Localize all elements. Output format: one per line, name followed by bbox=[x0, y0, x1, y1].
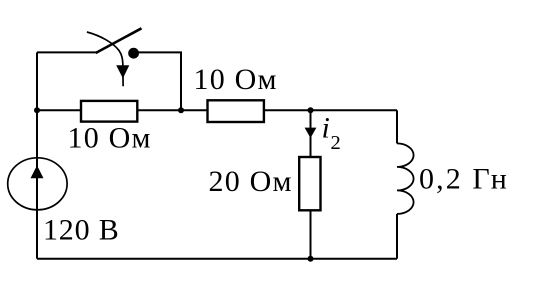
switch motion arc arrow bbox=[87, 32, 129, 86]
svg-text:2: 2 bbox=[331, 132, 341, 154]
svg-text:10 Ом: 10 Ом bbox=[194, 63, 278, 96]
wire top branch left segment bbox=[37, 51, 97, 53]
wire main line: node A to resistor R1 bbox=[37, 109, 81, 111]
inductor L1 0.2 Gn coil bbox=[397, 143, 414, 214]
wire i2 branch upper bbox=[310, 110, 312, 157]
svg-text:i: i bbox=[322, 112, 330, 145]
svg-text:120 В: 120 В bbox=[43, 214, 120, 247]
wire left rail bbox=[36, 52, 38, 258]
svg-text:0,2 Гн: 0,2 Гн bbox=[419, 163, 509, 196]
resistor R1 10 Om body bbox=[81, 101, 137, 122]
voltage source E1 circle bbox=[8, 158, 67, 210]
node A junction dot left bbox=[34, 107, 40, 113]
wire i2 branch lower bbox=[310, 210, 312, 258]
wire top branch right segment bbox=[139, 52, 182, 110]
node C junction dot (i2 branch top) bbox=[308, 107, 314, 113]
wire main line: R1 to R2 bbox=[137, 109, 207, 111]
resistor R3 20 Om body bbox=[299, 157, 320, 210]
wire bottom line bbox=[37, 258, 397, 260]
resistor R2 10 Om body bbox=[208, 100, 264, 122]
wire right rail lower bbox=[396, 214, 398, 259]
wire right rail upper bbox=[396, 110, 398, 143]
svg-text:10 Ом: 10 Ом bbox=[68, 122, 152, 155]
switch contact dot bbox=[128, 48, 139, 59]
switch S blade bbox=[96, 28, 142, 53]
current arrow i2 bbox=[305, 128, 317, 138]
node D junction dot (i2 branch bottom) bbox=[308, 256, 314, 262]
voltage source E1 arrow bbox=[31, 165, 44, 178]
wire main line: R2 to right corner bbox=[264, 109, 397, 111]
svg-text:20 Ом: 20 Ом bbox=[209, 165, 293, 198]
node B junction dot (switch branch) bbox=[178, 107, 184, 113]
